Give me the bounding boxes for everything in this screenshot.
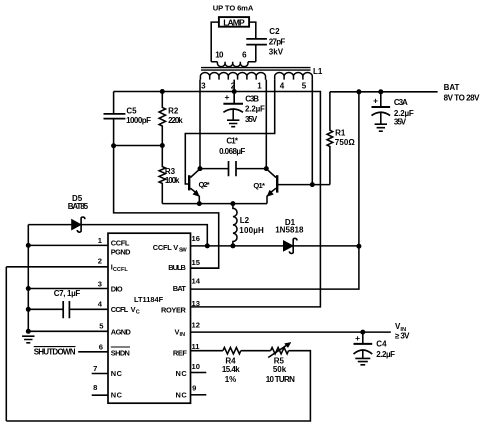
node rail-R2 [160,89,165,94]
capacitor C2 [246,39,267,45]
wire pin 5 AGND [28,330,108,332]
node DIO pin3 [26,286,31,291]
svg-text:R3: R3 [165,167,176,176]
svg-text:C: C [136,310,140,316]
svg-text:L2: L2 [240,216,250,225]
lamp loop right wire [249,22,256,62]
wire L1 pin 5 down to Q1 base node [311,80,313,185]
wire pin 10 stub [191,372,207,374]
svg-text:R2: R2 [168,107,179,116]
transformer L1 core [201,68,311,71]
svg-text:SHUTDOWN: SHUTDOWN [34,348,76,357]
capacitor C3B [223,104,243,127]
wire L1 pin 2 center tap [233,80,235,104]
svg-text:100k: 100k [165,176,180,185]
wire L1 pin 4 down to Q2 base [185,80,274,184]
wire C5 column / BULB path [114,92,219,269]
svg-text:≥ 3V: ≥ 3V [395,332,410,341]
node D5 to VSW [205,243,210,248]
svg-text:1%: 1% [225,375,237,384]
capacitor C3A [372,92,391,131]
node Q2 collector [198,166,203,171]
svg-text:Q1*: Q1* [253,181,265,190]
wire pin 4 CCFL VC with C7 [28,308,108,310]
svg-text:10: 10 [215,50,224,59]
diode D1 [283,238,297,253]
node L2 bottom [230,243,235,248]
svg-text:2: 2 [231,82,236,91]
transistor Q2 [189,169,200,204]
IC pin numbers [93,234,201,393]
svg-text:+: + [373,96,378,106]
capacitor C7 [63,301,69,318]
capacitor C3B plus vertical [233,92,235,104]
svg-text:35V: 35V [245,115,258,124]
svg-text:0.068µF: 0.068µF [219,147,245,156]
svg-text:6: 6 [99,342,103,351]
svg-text:1000pF: 1000pF [126,116,151,125]
svg-text:UP TO 6mA: UP TO 6mA [213,3,254,12]
svg-text:CCFL: CCFL [111,305,129,314]
svg-text:7: 7 [93,364,97,373]
svg-text:15: 15 [192,258,201,267]
svg-text:Q2*: Q2* [199,180,210,189]
resistor R1 [327,92,333,185]
node C5-R2R3 [111,143,116,148]
svg-text:9: 9 [192,384,196,393]
svg-text:ROYER: ROYER [161,305,187,314]
svg-text:C3A: C3A [394,98,408,107]
svg-text:1: 1 [257,82,262,91]
wire pin 12 VIN [191,331,391,333]
svg-text:BAT85: BAT85 [68,202,89,211]
svg-text:12: 12 [192,321,200,330]
svg-text:2: 2 [98,257,102,266]
svg-text:L1: L1 [313,67,323,76]
svg-text:SW: SW [179,247,187,253]
wire L1 pin 1 down to Q1 collector [265,80,267,169]
svg-text:SHDN: SHDN [111,348,130,357]
wire pin 7 stub [92,373,108,375]
svg-text:NC: NC [176,369,188,378]
node Q2 emitter [197,201,202,206]
wire pin 8 stub [92,394,108,396]
wire CCFL VSW rail [191,245,359,247]
svg-text:NC: NC [176,391,188,400]
svg-text:R1: R1 [335,129,346,138]
svg-text:DIO: DIO [111,284,123,293]
svg-text:3kV: 3kV [269,47,284,56]
wire left rail PGND [27,225,29,332]
transistor Q1 [266,169,277,204]
svg-text:11: 11 [192,342,201,351]
svg-text:NC: NC [111,369,123,378]
IC pin labels [111,238,188,399]
diode D5 [28,217,207,246]
svg-text:4: 4 [280,82,285,91]
wire pin 3 DIO [28,288,108,290]
node C7 [26,307,31,312]
svg-text:220k: 220k [168,116,183,125]
wire pin 6 SHDN [78,351,108,353]
svg-text:C4: C4 [376,340,387,349]
transformer L1 feedback winding [275,73,313,80]
transformer L1 secondary winding [211,62,256,67]
node Q1 base / pin5 [310,182,315,187]
svg-text:100µH: 100µH [239,226,264,235]
svg-text:750Ω: 750Ω [335,138,356,147]
node BAT-C3A [378,89,383,94]
wire Q1 base to R1 [277,184,330,186]
resistor R3 [159,146,165,204]
svg-text:C1*: C1* [226,137,238,146]
node AGND [26,329,31,334]
wire pin 11 REF with R4 R5 [191,350,223,352]
svg-text:16: 16 [192,234,200,243]
wire pin 2 ICCFL [6,267,108,421]
wire pin 1 [28,244,108,246]
inductor L2 [233,204,237,246]
svg-text:1N5818: 1N5818 [275,225,304,234]
svg-text:13: 13 [192,299,200,308]
wire BAT vertical to D1 and BAT pin [191,92,359,289]
resistor R2 [159,92,165,146]
svg-text:LT1184F: LT1184F [134,295,164,304]
wire R5 to bottom loop [6,351,310,421]
resistor R4 [223,348,241,354]
svg-text:5: 5 [302,82,307,91]
lamp loop left wire [211,22,219,62]
wire BAT rail [330,91,438,93]
svg-text:3: 3 [201,82,206,91]
svg-text:C5: C5 [126,107,137,116]
svg-text:35V: 35V [394,118,407,127]
svg-text:15.4k: 15.4k [222,365,240,374]
svg-text:NC: NC [111,391,123,400]
node rail-centertap [232,89,237,94]
svg-text:+: + [224,92,229,102]
svg-text:BAT: BAT [444,83,460,92]
resistor R5 potentiometer [271,348,289,354]
svg-text:BAT: BAT [173,284,187,293]
wire C1 left [200,168,229,170]
wire pin 9 stub [191,394,207,396]
node VIN-C4 [360,330,365,335]
svg-text:50k: 50k [273,365,287,374]
svg-text:8V TO 28V: 8V TO 28V [444,94,481,103]
svg-text:14: 14 [192,277,201,286]
svg-text:2.2µF: 2.2µF [245,105,265,114]
svg-text:+: + [355,333,360,343]
node PGND pin1 [26,243,31,248]
node L2 top [230,201,235,206]
capacitor C4 [354,332,373,365]
svg-text:27pF: 27pF [269,38,286,47]
svg-text:8: 8 [93,383,97,392]
IC U1 LT1184F box [108,233,191,403]
svg-text:C3B: C3B [245,95,259,104]
capacitor C1 [229,161,237,176]
svg-text:AGND: AGND [111,328,132,337]
svg-text:10 TURN: 10 TURN [266,375,295,384]
wire main rail centre tap / ROYER [114,92,321,307]
svg-text:PGND: PGND [111,247,131,256]
svg-text:REF: REF [173,348,187,357]
wire pin 15 BULB stub [191,267,219,269]
node D1 cathode vertical [356,244,361,249]
svg-text:LAMP: LAMP [223,17,245,27]
node Q1 collector [264,166,269,171]
svg-text:BULB: BULB [168,263,186,272]
wire node C5-R2R3 [114,145,163,147]
svg-text:C7, 1µF: C7, 1µF [54,289,81,298]
wire C1 right [236,168,266,170]
lamp box [219,17,249,27]
svg-text:CCFL: CCFL [111,238,130,247]
capacitor C5 [104,114,126,119]
svg-text:2.2µF: 2.2µF [376,350,395,359]
wire L1 pin 3 down to Q2 collector [199,80,201,169]
transformer L1 primary left winding [200,73,265,80]
svg-text:6: 6 [242,50,247,59]
svg-text:10: 10 [192,362,200,371]
wire emitter rail [162,203,267,205]
svg-text:C2: C2 [269,27,280,36]
ground AGND [22,336,34,343]
svg-text:CCFL V: CCFL V [153,243,179,252]
node BAT-D1 vertical [356,89,361,94]
svg-text:3: 3 [98,279,102,288]
